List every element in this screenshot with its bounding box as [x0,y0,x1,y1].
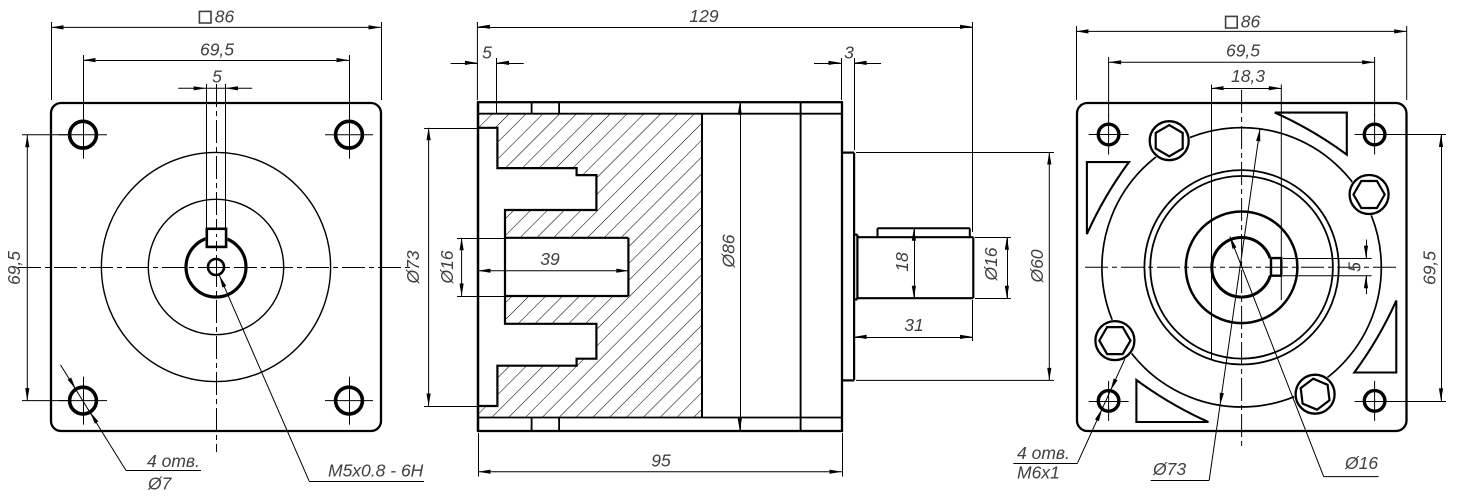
dimension 5 keyway rear: text [1345,262,1365,272]
front view hub circle O60 [101,152,330,381]
svg-text:69,5: 69,5 [4,251,24,285]
dimension O16 bore: text [437,250,457,284]
svg-text:5: 5 [212,66,222,86]
rear view M6 hole top-left [1089,115,1129,155]
svg-text:86: 86 [215,7,235,27]
svg-text:31: 31 [904,315,923,335]
svg-text:39: 39 [540,249,560,269]
dimension 5 front: text [212,66,222,86]
svg-text:69,5: 69,5 [200,40,234,60]
section view shaft shoulder [854,235,857,300]
svg-text:5: 5 [1345,262,1365,272]
rear view vertical centerline [1241,90,1243,446]
svg-text:Ø86: Ø86 [719,234,739,268]
svg-text:18,3: 18,3 [1231,66,1265,86]
svg-text:Ø16: Ø16 [437,250,457,284]
dimension O86 body: text [719,234,739,268]
rear view bearing ring outer circle [1144,170,1338,364]
svg-text:Ø16: Ø16 [1344,453,1378,473]
label O16 rear: shelf [1324,476,1379,478]
dimension 69,5 front left: extension lines [22,135,70,401]
svg-text:4 отв.: 4 отв. [1017,443,1070,463]
rear view bottom-left corner gusset [1136,380,1208,422]
rear view top-right corner gusset [1275,113,1347,155]
dimension 95: dimension line [478,470,842,474]
section view hatching [478,114,702,418]
label 4 otv M6x1: text [1017,443,1070,483]
section view hatch-block right edge [701,114,703,418]
dimension 5 front: dimension line [178,86,252,90]
dimension 69,5 rear right: text [1420,251,1440,285]
dimension 69,5 front top: extension lines [84,55,350,112]
rear view M6 hole bottom-right [1355,381,1395,421]
rear view socket screw lower-left [1095,321,1134,360]
svg-text:86: 86 [1241,12,1261,32]
svg-text:69,5: 69,5 [1226,41,1260,61]
front view M5 crosshair [206,257,226,277]
rear view O73 pilot circle [1094,120,1390,416]
dimension O60 hub: extension lines [856,153,1054,381]
dimension 18,3: text [1231,66,1265,86]
front view horizontal centerline [18,267,414,269]
dimension 69,5 rear right: dimension line [1439,135,1443,401]
dimension 69,5 front left: dimension line [25,135,29,401]
svg-text:69,5: 69,5 [1420,251,1440,285]
front view bolt hole O7 bottom-left [59,377,107,425]
dimension 3 hub: text [844,43,854,63]
dimension O16 shaft: text [981,247,1001,281]
rear view M6 hole bottom-left [1089,381,1129,421]
label O73 rear: shelf [1151,480,1210,482]
dimension O16 bore: extension lines [457,239,505,297]
section view center bore O16 [505,238,628,296]
dimension 69,5 rear right: extension lines [1390,135,1446,402]
label 4 otv O7: shelf [126,470,201,472]
leader 4 holes O7: arrows [68,378,99,424]
label 4 otv O7: text [147,451,200,494]
rear view boss circle [1186,211,1298,323]
svg-text:М6х1: М6х1 [1017,463,1060,483]
front view keyway slot lines [207,84,226,229]
leader M6 rear: leader line [1078,359,1125,463]
section view internal bore profile [478,128,596,406]
dimension 31: extension line [972,300,974,341]
section view hub O60 face [853,153,855,381]
section view shaft key [878,228,970,237]
rear view socket screw lower-right [1296,375,1335,414]
leader O16 rear: leader line [1230,237,1324,477]
label O73 rear: text [1152,459,1186,479]
dimension 69,5 rear top: extension lines [1109,57,1375,116]
dimension 5 spigot: text [482,43,492,63]
rear view top-left corner gusset [1087,162,1129,234]
svg-text:Ø73: Ø73 [403,250,423,284]
dimension 69,5 rear top: dimension line [1109,60,1375,64]
dimension 39: text [540,249,560,269]
section view top corner-round line [478,113,842,115]
front view bolt hole O7 top-left [59,111,107,159]
dimension square86 rear: extension lines [1077,26,1407,100]
dimension square86 rear: dimension line [1076,29,1407,33]
leader 4 holes O7: leader line [61,365,127,471]
rear view socket screw upper-right [1350,175,1389,214]
dimension O73 spigot: dimension line [427,128,431,406]
dimension square86 rear: text [1226,12,1261,32]
dimension square86 front: text [199,7,234,27]
dimension 31: dimension line [854,335,972,339]
dimension 3 hub: dimension line [814,61,881,65]
dimension O73 spigot: text [403,250,423,284]
dimension 18,3: dimension line [1211,86,1281,90]
section view hub O60 top/bottom [842,153,854,381]
rear view shaft bore O16 [1212,237,1282,297]
section view face line [477,102,479,431]
dimension 39: dimension line [478,269,629,273]
front view keyway centerline dash [216,220,218,260]
dimension O86 body: dimension line [738,102,742,431]
svg-text:129: 129 [689,6,718,26]
dimension square86 front: extension lines [52,22,382,100]
label O16 rear: text [1344,453,1378,473]
front view bolt hole O7 top-right [325,111,373,159]
label M5x0.8-6H: shelf [309,481,424,483]
rear view bore keyway [1271,258,1281,276]
rear view socket screw upper-left [1150,121,1189,160]
dimension square86 front: dimension line [51,25,381,29]
dimension 31: text [904,315,923,335]
dimension O16 bore: dimension line [460,238,464,296]
dimension 129: dimension line [477,25,972,29]
section view output shaft O16 [857,237,973,298]
svg-text:Ø73: Ø73 [1152,459,1186,479]
leader O73 rear: leader line [1209,130,1260,481]
dimension 95: text [651,451,671,471]
svg-text:3: 3 [844,43,854,63]
section view body outline [478,102,842,431]
rear view bottom-right corner gusset [1354,301,1396,373]
front view M5 tapped hole circle [208,259,224,275]
dimension 129: extension lines [477,22,972,232]
dimension O60 hub: text [1027,249,1047,283]
label 4 otv M6x1: shelf [1013,463,1077,465]
dimension 5 spigot: extension line [496,58,498,114]
dimension 18 key: dimension line [912,228,916,298]
svg-text:95: 95 [651,451,671,471]
dimension 129: text [689,6,718,26]
front view shaft circle O16 [186,227,246,297]
leader M6 rear: arrows [1095,379,1118,422]
svg-text:Ø60: Ø60 [1027,249,1047,283]
dimension O16 shaft: extension lines [975,238,1011,299]
dimension O60 hub: dimension line [1047,152,1051,380]
front view keyway pocket [207,229,226,247]
section view bottom corner-round line [478,417,842,419]
rear view bearing ring inner circle [1150,176,1333,359]
section view rear seam [800,102,802,431]
leader M5 thread: arrow [219,275,226,287]
front view square flange outline [51,103,381,431]
leader O73 rear: arrows [1220,129,1261,406]
dimension 18 key: text [892,252,912,272]
dimension 95: extension lines [479,433,843,477]
dimension O16 shaft: dimension line [1005,237,1009,298]
section view front plate seam [531,102,533,431]
leader O16 rear: arrow [1230,237,1237,249]
dimension 69,5 front top: text [200,40,234,60]
front view boss circle [148,199,283,334]
svg-text:18: 18 [892,252,912,272]
rear view M6 hole top-right [1355,115,1395,155]
front view bolt hole O7 bottom-right [325,377,373,425]
dimension 5 keyway rear: dimension line [1364,240,1368,295]
dimension O73 spigot: extension lines [424,129,477,407]
svg-text:4 отв.: 4 отв. [147,451,200,471]
dimension 69,5 front left: text [4,251,24,285]
rear view horizontal centerline [1085,266,1400,268]
svg-text:Ø16: Ø16 [981,247,1001,281]
section view ring gear seam [558,102,560,431]
svg-text:M5x0.8 - 6H: M5x0.8 - 6H [328,461,424,481]
dimension 18,3: extension lines [1212,85,1282,361]
dimension 3 hub: extension lines [842,58,855,150]
dimension 69,5 rear top: text [1226,41,1260,61]
dimension 5 keyway rear: extension lines [1283,259,1372,276]
dimension 5 spigot: dimension line [451,61,524,65]
dimension 69,5 front top: dimension line [83,58,349,62]
svg-text:Ø7: Ø7 [147,474,173,494]
front view vertical centerline [216,84,218,452]
rear view square flange outline [1077,103,1407,431]
label M5x0.8-6H: text [328,461,424,481]
leader M5 thread: leader line [219,275,309,481]
svg-text:5: 5 [482,43,492,63]
